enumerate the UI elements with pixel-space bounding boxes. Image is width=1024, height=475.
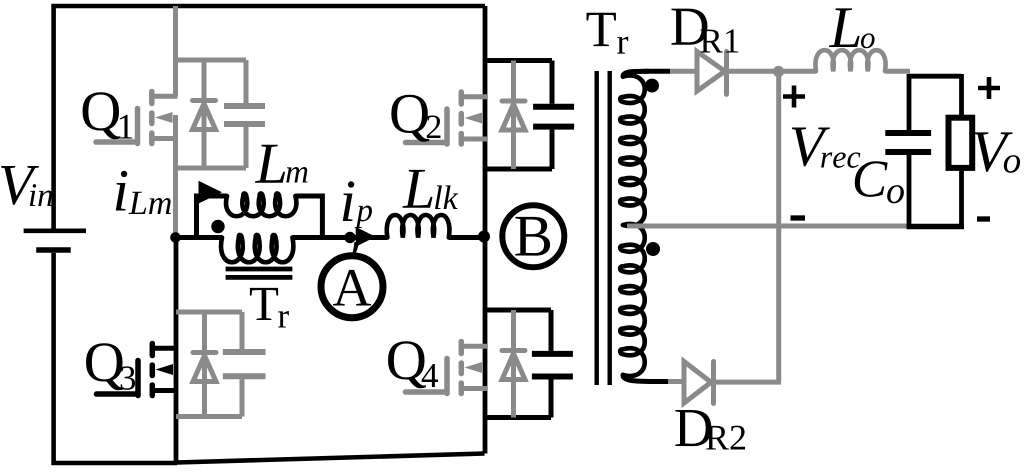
wire center tap return [627, 224, 910, 229]
label ip [343, 181, 372, 228]
body diode of mosfet Q3 [193, 312, 216, 417]
node junction left [170, 232, 181, 243]
label iLm [116, 171, 171, 214]
label Lm [255, 145, 308, 183]
label Q2 [391, 95, 440, 142]
wire Lm branch right [295, 196, 322, 238]
capacitor of mosfet Q3 [223, 312, 266, 417]
wire DR2 to Vrec vertical [714, 380, 782, 385]
current marker ip dot [344, 232, 355, 243]
arrow ip [351, 227, 376, 259]
label DR2 [675, 410, 745, 450]
node A circle [321, 256, 383, 318]
secondary winding top [620, 71, 648, 226]
channel of mosfet Q1 [152, 92, 178, 144]
wire battery to bottom rail [54, 253, 177, 463]
capacitor of mosfet Q4 [532, 310, 573, 418]
body diode of mosfet Q1 [193, 60, 216, 168]
gate of mosfet Q3 [97, 361, 139, 396]
inductor Llk [387, 215, 450, 238]
primary winding polarity dot [211, 220, 224, 233]
label Lo [829, 8, 875, 48]
secondary bottom dot [646, 242, 660, 256]
secondary top dot [645, 79, 659, 93]
node junction B [478, 231, 490, 243]
mosfet Q1 frame [176, 60, 247, 168]
minus sign Vrec [791, 215, 806, 220]
plus sign Vrec [783, 86, 805, 108]
transformer Tr primary core [226, 269, 293, 277]
channel of mosfet Q4 [461, 342, 487, 394]
channel of mosfet Q3 [152, 344, 178, 396]
diode DR2 [684, 362, 714, 404]
wire Q3 leg [174, 238, 179, 463]
wire secondary bottom black [648, 379, 668, 384]
label Q4 [388, 341, 438, 388]
gate of mosfet Q2 [406, 109, 448, 144]
wire Lo to output [885, 69, 910, 74]
capacitor Co [885, 74, 931, 229]
label DR1 [671, 9, 738, 53]
inductor Lm [226, 193, 296, 216]
wire Llk to node B [449, 235, 485, 240]
gate of mosfet Q4 [406, 359, 448, 394]
wire top rail [54, 6, 485, 229]
label Llk [402, 170, 458, 209]
transformer Tr core [597, 71, 610, 385]
wire DR1 to Vrec node [727, 69, 779, 74]
wire to DR2 [668, 379, 684, 384]
wire bottom rail slanted [177, 454, 485, 463]
label Q3 [86, 343, 135, 390]
wire output bottom [907, 224, 964, 230]
node B circle [502, 205, 564, 267]
label Vin [1, 166, 52, 206]
minus sign Vo [977, 216, 990, 221]
transformer Tr primary winding [221, 235, 293, 262]
arrow iLm [199, 181, 223, 204]
channel of mosfet Q2 [461, 92, 487, 144]
label Tr primary [250, 288, 289, 328]
mosfet Q4 frame [485, 310, 551, 418]
label Co [855, 161, 904, 203]
wire Vrec vertical [776, 72, 781, 383]
wire secondary top black [644, 69, 670, 74]
battery Vin negative plate [36, 247, 70, 253]
wire Q2 Q4 leg [483, 6, 488, 454]
label Q1 [83, 92, 133, 139]
secondary winding bottom [620, 224, 650, 382]
resistor Vo [949, 74, 973, 229]
wire Q1 leg lower [173, 115, 178, 236]
wire output top [909, 74, 962, 79]
capacitor of mosfet Q2 [533, 61, 574, 170]
body diode of mosfet Q2 [502, 61, 525, 170]
plus sign Vo [978, 77, 1000, 99]
label Vrec [792, 128, 860, 168]
wire Lm branch left [197, 196, 228, 238]
wire node A left segment [176, 235, 223, 240]
node Vrec dot [773, 66, 784, 77]
inductor Lo [815, 50, 885, 71]
label Vo [974, 132, 1020, 172]
mosfet Q2 frame [485, 61, 552, 170]
wire Vrec node to Lo [779, 69, 817, 74]
body diode of mosfet Q4 [502, 310, 525, 418]
wire to DR1 [670, 69, 697, 74]
capacitor of mosfet Q1 [224, 60, 265, 168]
mosfet Q3 frame [176, 312, 242, 417]
gate of mosfet Q1 [96, 109, 138, 144]
battery Vin positive plate [24, 229, 86, 234]
diode DR1 [697, 52, 727, 95]
label Tr secondary [587, 13, 629, 54]
wire primary to Llk [292, 235, 387, 240]
wire Q1 leg upper [173, 6, 178, 96]
